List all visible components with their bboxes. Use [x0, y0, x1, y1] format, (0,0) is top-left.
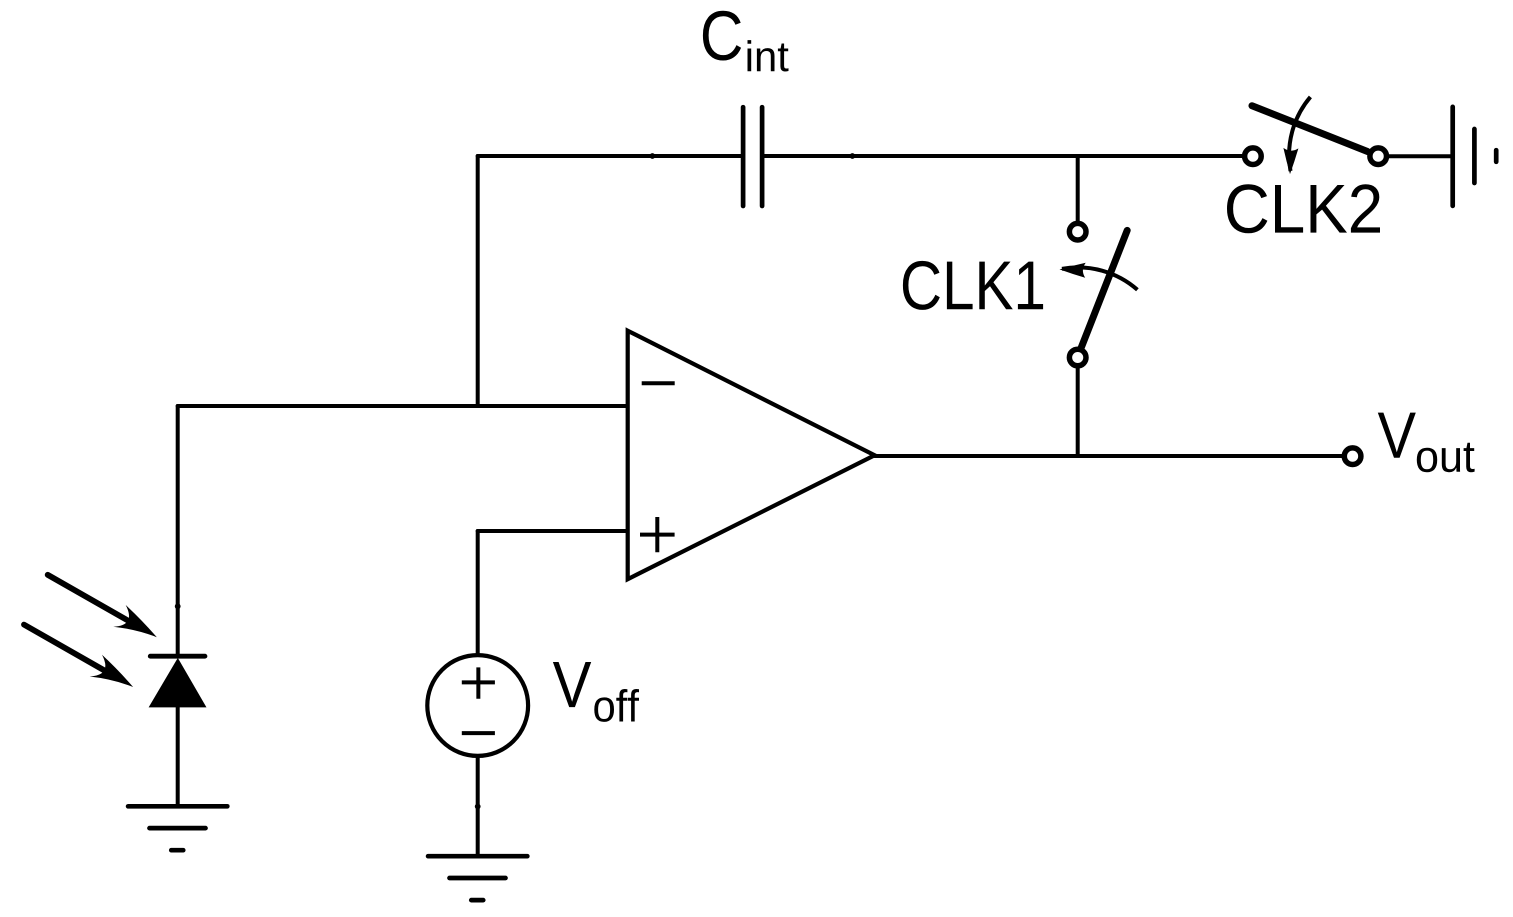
wire CLK2 to ground	[1378, 154, 1453, 158]
label CLK1	[903, 261, 1043, 310]
node Vout terminal circle	[1344, 448, 1361, 465]
V_off plus marker	[462, 667, 495, 698]
label V_off main	[553, 662, 591, 707]
label V_out main	[1378, 413, 1416, 458]
label V_out subscript	[1417, 443, 1475, 472]
light arrow 1 shaft	[48, 575, 129, 621]
wire vertical feedback	[476, 156, 480, 406]
wire photodiode to ground	[176, 707, 180, 806]
light arrow 2 head	[90, 655, 134, 687]
switch CLK2 right contact	[1370, 148, 1387, 165]
wire non-inverting input	[478, 529, 628, 533]
light arrow 1 head	[113, 605, 157, 637]
switch CLK1 top contact	[1069, 223, 1086, 240]
op-amp U1 triangle	[628, 331, 875, 580]
switch CLK2 left contact	[1245, 148, 1262, 165]
light arrow 2 shaft	[24, 625, 105, 671]
switch CLK1 actuation arc	[1062, 267, 1137, 289]
wire vertex nub (top wire right)	[850, 153, 856, 159]
wire inverting input	[178, 404, 628, 408]
voltage source V_off circle	[427, 655, 528, 756]
switch CLK1 arrowhead	[1060, 263, 1086, 278]
wire top feedback left segment	[478, 154, 743, 158]
label CLK2	[1227, 184, 1380, 233]
wire Voff to ground	[476, 756, 480, 856]
switch CLK1 bottom contact	[1069, 349, 1086, 366]
photodiode D1 triangle	[150, 659, 206, 707]
switch CLK1 blade	[1081, 230, 1127, 347]
label C_int subscript	[748, 40, 789, 71]
wire CLK1 upper stub	[1076, 156, 1080, 232]
wire output	[875, 454, 1353, 458]
wire vertex nub (Voff ground lead)	[475, 804, 481, 810]
wire top feedback right segment	[762, 154, 1253, 158]
wire photodiode anode drop	[176, 406, 180, 656]
label C_int main	[703, 11, 741, 61]
photodiode D1 cathode bar	[150, 654, 205, 659]
op-amp plus input marker	[640, 517, 675, 552]
ground photodiode	[128, 806, 227, 850]
V_off minus marker	[462, 731, 495, 735]
wire CLK1 lower stub	[1076, 358, 1080, 457]
label V_off subscript	[594, 689, 639, 722]
wire vertex nub (photodiode lead)	[175, 603, 181, 609]
switch CLK2 blade	[1252, 106, 1368, 152]
switch CLK2 actuation arc	[1289, 97, 1310, 171]
capacitor Cint plates	[743, 107, 762, 206]
ground Voff	[428, 856, 527, 900]
wire vertex nub (top wire)	[650, 153, 656, 159]
ground right (rotated)	[1453, 107, 1497, 206]
op-amp minus input marker	[642, 381, 675, 385]
switch CLK2 arrowhead	[1283, 148, 1298, 174]
wire to Voff	[476, 531, 480, 655]
